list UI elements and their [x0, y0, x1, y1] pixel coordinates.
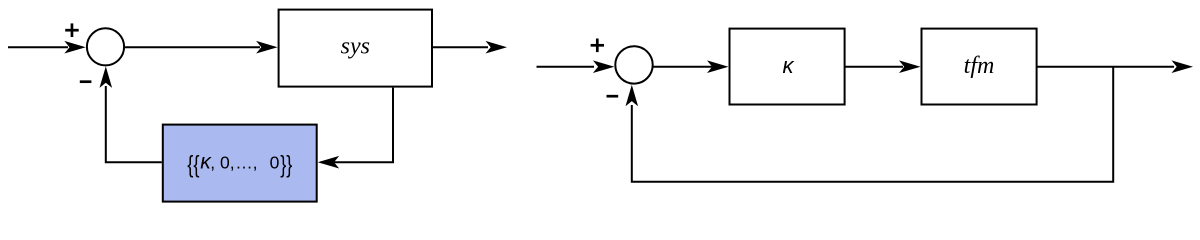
- svg-text:κ: κ: [783, 53, 795, 78]
- arrow up into S2: [626, 85, 639, 107]
- minus sign at S1: [80, 80, 92, 83]
- plus sign at S2: [591, 39, 604, 53]
- block sys: [279, 10, 432, 87]
- wire feedback right: down, left, up: [632, 67, 1113, 182]
- arrow up into S1: [100, 66, 113, 88]
- plus sign at S1: [65, 23, 79, 37]
- wire K1 to S1 feedback: [106, 86, 162, 162]
- minus sign at S2: [607, 95, 619, 98]
- block tfm: [922, 29, 1037, 105]
- arrow into sys: [256, 41, 278, 54]
- arrow into tfm: [899, 60, 921, 73]
- svg-text:, 0,: , 0,: [210, 153, 234, 173]
- svg-text:}}: }}: [280, 151, 292, 178]
- arrow into summing junction S1: [64, 41, 86, 54]
- label {{k,0,...,0}}: [187, 151, 292, 178]
- arrow into summing junction S2: [593, 60, 615, 73]
- block K2 (kappa): [730, 29, 845, 105]
- arrow into k block: [707, 60, 729, 73]
- wire tfm output: [1037, 66, 1174, 68]
- svg-text:{{: {{: [187, 151, 199, 178]
- wire sys output: [432, 46, 488, 48]
- arrow output right diagram: [1172, 60, 1194, 73]
- wire input left: [8, 46, 68, 48]
- wire S2 to k block: [653, 66, 713, 68]
- svg-text:…: …: [235, 153, 253, 173]
- wire k to tfm: [845, 66, 903, 68]
- svg-text:0: 0: [270, 153, 280, 173]
- svg-text:tfm: tfm: [964, 53, 995, 79]
- arrow output left diagram: [486, 41, 508, 54]
- svg-text:sys: sys: [341, 34, 370, 60]
- wire S1 to sys: [124, 46, 260, 48]
- summing junction S2: [615, 46, 652, 83]
- arrow into feedback block K1: [318, 156, 340, 169]
- feedback block K1 (blue): [163, 125, 317, 202]
- summing junction S1: [87, 28, 124, 65]
- svg-text:,: ,: [253, 153, 258, 173]
- wire input right: [537, 66, 595, 68]
- wire sys bottom tap down: [321, 88, 393, 163]
